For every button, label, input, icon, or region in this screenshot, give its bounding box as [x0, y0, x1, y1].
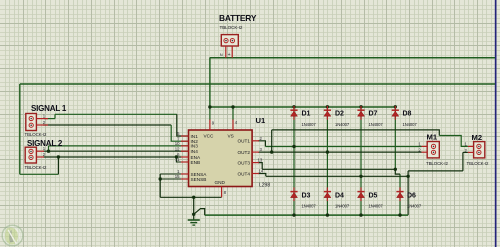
svg-text:12: 12 [175, 146, 180, 151]
wire gnd net vertical [193, 197, 195, 219]
U1 pin stub IN1 [181, 135, 189, 137]
svg-text:D5: D5 [369, 193, 378, 200]
svg-text:1N4007: 1N4007 [302, 122, 317, 127]
wire OUT1 jog [258, 141, 265, 147]
U1 pin stub IN4 [181, 150, 189, 152]
U1 pin stub VS4 [232, 120, 234, 131]
wire S1 pin1 riser [54, 114, 56, 118]
svg-text:OUT4: OUT4 [237, 171, 250, 176]
svg-text:D4: D4 [335, 193, 344, 200]
U1 pin stub SENSB [181, 178, 189, 180]
wire M2 pin1 branch riser [271, 130, 273, 152]
junction node D3 bottom [292, 213, 295, 216]
wire VS pin4 drop green [232, 107, 234, 120]
U1 pin stub ENA [181, 156, 189, 158]
junction node D7 top [359, 105, 362, 108]
U1 pin stub IN3 [181, 145, 189, 147]
wire gnd horizontal to pin8 [160, 196, 221, 198]
junction node D8 OUT3 [394, 168, 397, 171]
wire ENB branch [176, 157, 188, 162]
wire battery positive rail y58 [210, 57, 495, 59]
junction node gnd wire [192, 196, 195, 199]
junction node IN3 branch [47, 150, 50, 153]
wire left ground drop x19.8 [19, 84, 21, 174]
svg-text:OUT2: OUT2 [237, 150, 250, 155]
svg-text:IN4: IN4 [191, 149, 199, 154]
svg-text:1N4007: 1N4007 [403, 122, 418, 127]
wire M2 pin1 branch end [439, 136, 468, 147]
svg-text:D7: D7 [369, 111, 378, 118]
junction node OUT4 x408 [406, 175, 409, 178]
ground symbol [188, 220, 200, 225]
wire ground jog bottom [20, 173, 59, 175]
wire SENS vertical [159, 174, 161, 197]
BATTERY pin stub right [231, 46, 233, 58]
wire bottom ground rail [205, 214, 408, 216]
junction node VCC rail [208, 105, 211, 108]
svg-text:BATTERY: BATTERY [219, 13, 257, 23]
svg-text:GND: GND [215, 180, 226, 185]
wire M2 pin2 drop [462, 152, 464, 171]
svg-text:1N4007: 1N4007 [335, 122, 350, 127]
junction node D8 top [394, 105, 397, 108]
svg-text:L298: L298 [259, 183, 270, 189]
junction node OUT1 D1 [292, 145, 295, 148]
svg-text:15: 15 [175, 174, 180, 179]
wire OUT3 horizontal [262, 169, 400, 174]
svg-text:10: 10 [175, 141, 180, 146]
diode D7 1N4007 [357, 106, 364, 120]
SIGNAL2 pin stub 2 [36, 156, 44, 158]
wire vertical x210 battery to VCC rail [209, 58, 211, 107]
svg-text:IN3: IN3 [191, 144, 199, 149]
M2 pin stub 2 [468, 151, 474, 153]
svg-text:OUT1: OUT1 [237, 139, 250, 144]
wire IN3 feed [49, 145, 189, 147]
diode D3 1N4007 [290, 187, 297, 201]
wire SENSB feed [160, 178, 188, 180]
svg-text:D6: D6 [407, 193, 416, 200]
svg-text:TBLOCK-I2: TBLOCK-I2 [25, 165, 47, 170]
junction node D4 bottom [326, 213, 329, 216]
wire M2 pin2 horizontal [408, 170, 463, 172]
wire ground rail y84 [20, 83, 495, 85]
junction node ENA ENB branch [175, 155, 178, 158]
sheet right border [495, 0, 497, 247]
wire OUT4 horizontal [266, 175, 408, 177]
wire D6 column [399, 174, 401, 215]
terminal block M2 [474, 142, 485, 158]
wire D1 D3 column [293, 107, 295, 215]
svg-text:OUT3: OUT3 [237, 160, 250, 165]
U1 pin stub SENSA [181, 173, 189, 175]
M1 pin stub 1 [422, 145, 428, 147]
diode D8 1N4007 [392, 106, 399, 120]
wire ground drop x408 [407, 171, 409, 215]
svg-text:TBLOCK-I2: TBLOCK-I2 [220, 25, 243, 30]
wire D7 D5 column [360, 107, 362, 215]
U1 pin stub GND8 [221, 187, 223, 198]
op-amp U1 L298 body [189, 130, 253, 187]
SIGNAL2 pin stub 1 [36, 150, 44, 152]
U1 pin stub IN2 [181, 140, 189, 142]
wire IN1 drop [177, 114, 188, 136]
BATTERY pin stub left [225, 46, 227, 58]
svg-text:D2: D2 [335, 111, 344, 118]
terminal block SIGNAL 1 [26, 114, 37, 131]
svg-text:D8: D8 [403, 111, 412, 118]
U1 pin stub OUT4 [252, 173, 259, 175]
terminal block M1 [427, 142, 439, 158]
svg-text:ENB: ENB [191, 160, 201, 165]
wire IN2 drop [171, 125, 188, 141]
wire D8 column [394, 107, 396, 170]
wire IN3 branch riser [48, 146, 50, 151]
U1 pin stub OUT2 [252, 151, 259, 153]
M2 pin stub 1 [468, 145, 474, 147]
wire D2 D4 column [326, 107, 328, 215]
svg-text:M1: M1 [427, 133, 438, 142]
wire SENSA feed [160, 173, 188, 175]
wire positive rail y107 to diode tops [210, 106, 395, 108]
junction node D1 top [292, 105, 295, 108]
junction node D5 bottom [359, 213, 362, 216]
svg-text:SENSB: SENSB [191, 177, 207, 182]
U1 pin stub VCC9 [209, 120, 211, 131]
wire S1 pin1 to IN1 horizontal [55, 113, 177, 115]
junction node S2 ground riser [57, 155, 60, 158]
U1 pin stub OUT3 [252, 162, 259, 164]
junction node D6 bottom [398, 213, 401, 216]
svg-text:13: 13 [258, 158, 263, 163]
wire OUT1 to M1 pin1 [265, 146, 421, 148]
SIGNAL1 pin stub 1 [36, 118, 48, 120]
wire M2 pin2 stub link [463, 151, 468, 153]
diode D5 1N4007 [357, 187, 364, 201]
svg-text:N: N [220, 52, 223, 57]
svg-text:D1: D1 [302, 111, 311, 118]
junction node OUT2 D2 [326, 150, 329, 153]
wire S2 pin2 to ENA [43, 156, 182, 158]
watermark logo [2, 225, 23, 246]
svg-text:1N4007: 1N4007 [335, 204, 350, 209]
junction node gnd sjog [192, 213, 195, 216]
junction node SENSB [159, 177, 162, 180]
svg-text:+: + [228, 52, 231, 58]
wire OUT2 to M1 pin2 [258, 151, 422, 153]
svg-text:TBLOCK-I2: TBLOCK-I2 [467, 161, 489, 166]
wire gnd s-jog [194, 209, 205, 216]
svg-text:D3: D3 [302, 193, 311, 200]
SIGNAL1 pin stub 2 [36, 124, 48, 126]
diode D6 1N4007 [396, 187, 403, 201]
svg-text:1N4007: 1N4007 [407, 204, 422, 209]
svg-text:VS: VS [228, 134, 234, 139]
junction node VS rail [231, 105, 234, 108]
wire VCC pin9 drop green [209, 107, 211, 120]
junction node OUT4 D7 [359, 175, 362, 178]
svg-text:11: 11 [175, 157, 180, 162]
terminal block SIGNAL 2 [25, 147, 36, 163]
wire S2 pin1 to IN4 [43, 150, 188, 152]
svg-text:14: 14 [259, 169, 264, 174]
terminal block BATTERY [221, 35, 238, 46]
wire S1 pin1 horizontal stub link [44, 118, 55, 120]
diode D2 1N4007 [324, 106, 331, 120]
M1 pin stub 2 [422, 151, 428, 153]
svg-text:VCC: VCC [204, 134, 215, 139]
svg-text:1N4007: 1N4007 [369, 122, 384, 127]
svg-text:1N4007: 1N4007 [302, 204, 317, 209]
wire ground riser to S2 pin2 [57, 157, 59, 174]
svg-text:1N4007: 1N4007 [369, 204, 384, 209]
U1 pin stub OUT1 [252, 140, 259, 142]
wire OUT4 jog [258, 174, 266, 177]
svg-text:U1: U1 [256, 116, 266, 125]
U1 pin stub ENB [181, 161, 189, 163]
wire OUT3 jog [258, 163, 262, 170]
diode D4 1N4007 [324, 187, 331, 201]
diode D1 1N4007 [290, 106, 297, 120]
junction node M2 branch OUT2 [270, 150, 273, 153]
svg-text:SIGNAL 1: SIGNAL 1 [31, 104, 67, 113]
svg-text:M2: M2 [472, 133, 483, 142]
wire S1 pin2 to IN2 horizontal [43, 124, 171, 126]
wire M2 pin1 branch horizontal [272, 130, 440, 136]
svg-text:TBLOCK-I2: TBLOCK-I2 [25, 132, 47, 137]
svg-text:TBLOCK-I2: TBLOCK-I2 [426, 161, 448, 166]
junction node D2 top [326, 105, 329, 108]
